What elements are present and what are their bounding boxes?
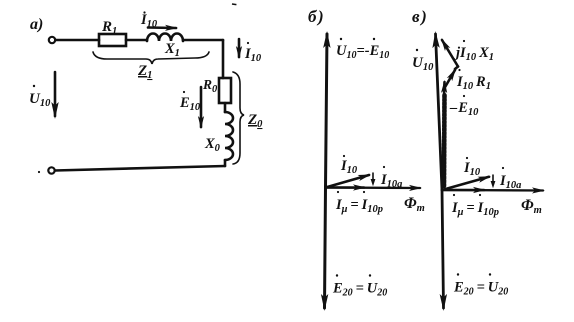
phasor jI10X1 (diagram v) <box>442 40 494 67</box>
svg-text:a): a) <box>30 16 43 33</box>
svg-text:Z0: Z0 <box>247 112 263 130</box>
component I10a (diagram b) <box>371 166 403 190</box>
wire X1 to right corner <box>183 39 223 42</box>
svg-text:E10: E10 <box>179 95 201 113</box>
terminal (top-left input) <box>49 37 55 43</box>
svg-text:I10: I10 <box>463 160 481 178</box>
current arrow I10 (right branch) <box>239 39 262 64</box>
voltage arrow U10 <box>29 72 55 116</box>
axis Phi_m (diagram v) <box>442 189 543 192</box>
component I10a (diagram v) <box>491 167 522 191</box>
wire right branch down from top <box>222 40 225 78</box>
terminal (bottom-left) <box>48 167 54 173</box>
svg-text:I10: I10 <box>140 12 158 30</box>
speck top middle <box>232 3 237 5</box>
svg-text:–E10: –E10 <box>449 100 479 118</box>
inductor X1 <box>147 34 183 41</box>
inductor X0 <box>225 112 233 160</box>
svg-text:I10: I10 <box>340 158 358 176</box>
svg-text:Iμ = I10p: Iμ = I10p <box>451 200 499 218</box>
svg-text:U10: U10 <box>29 91 51 109</box>
svg-text:I10a: I10a <box>499 173 521 191</box>
phasor -E10 (diagram v, hatched shaft) <box>444 82 479 186</box>
svg-text:I10a: I10a <box>380 172 402 190</box>
svg-text:Φm: Φm <box>404 195 425 214</box>
svg-text:jI10 X1: jI10 X1 <box>454 45 494 63</box>
svg-text:E20 = U20: E20 = U20 <box>332 281 387 299</box>
svg-text:E20 = U20: E20 = U20 <box>453 280 508 298</box>
svg-text:Φm: Φm <box>521 197 542 216</box>
svg-text:U10=-E10: U10=-E10 <box>336 43 389 61</box>
emf arrow E10 <box>179 87 201 127</box>
svg-text:X1: X1 <box>164 41 180 59</box>
phasor I10 (diagram b) <box>326 175 370 188</box>
wire X0 down to bottom corner <box>224 160 227 166</box>
phasor Imu = I10p (diagram b) <box>326 186 365 189</box>
phasor I10 (diagram v) <box>442 177 489 190</box>
brace Z0 (right of R0 and X0) <box>233 72 244 164</box>
svg-text:Z1: Z1 <box>137 63 152 81</box>
axis Phi_m (diagram b) <box>326 186 421 189</box>
wire bottom <box>55 166 225 171</box>
svg-text:U10: U10 <box>412 55 434 73</box>
brace Z1 (under R1 and X1) <box>93 52 209 64</box>
resistor R1 <box>99 34 126 46</box>
wire R0 to X0 <box>224 103 227 112</box>
svg-text:R1: R1 <box>101 19 117 37</box>
speck near bottom terminal <box>38 171 40 173</box>
phasor E20=U20 (vertical down, diagram b) <box>325 188 326 309</box>
phasor I10R1 (diagram v) <box>445 67 491 93</box>
phasor U10=-E10 (vertical axis up, diagram b) <box>326 34 328 188</box>
svg-text:б): б) <box>308 7 324 26</box>
svg-text:в): в) <box>412 7 427 26</box>
svg-text:R0: R0 <box>202 77 218 95</box>
phasor Imu = I10p (diagram v) <box>442 189 484 192</box>
phasor U10 (diagram v, tilted) <box>436 34 443 190</box>
wire R1 to X1 <box>126 39 147 42</box>
resistor R0 <box>219 78 231 103</box>
wire top-left to R1 <box>56 39 100 42</box>
svg-text:Iμ = I10p: Iμ = I10p <box>335 197 383 215</box>
phasor E20=U20 (diagram v, vertical down) <box>442 190 444 308</box>
current arrow I10 (top) <box>140 11 176 30</box>
svg-text:X0: X0 <box>204 136 221 154</box>
svg-text:I10 R1: I10 R1 <box>456 74 491 92</box>
svg-text:I10: I10 <box>244 46 262 64</box>
